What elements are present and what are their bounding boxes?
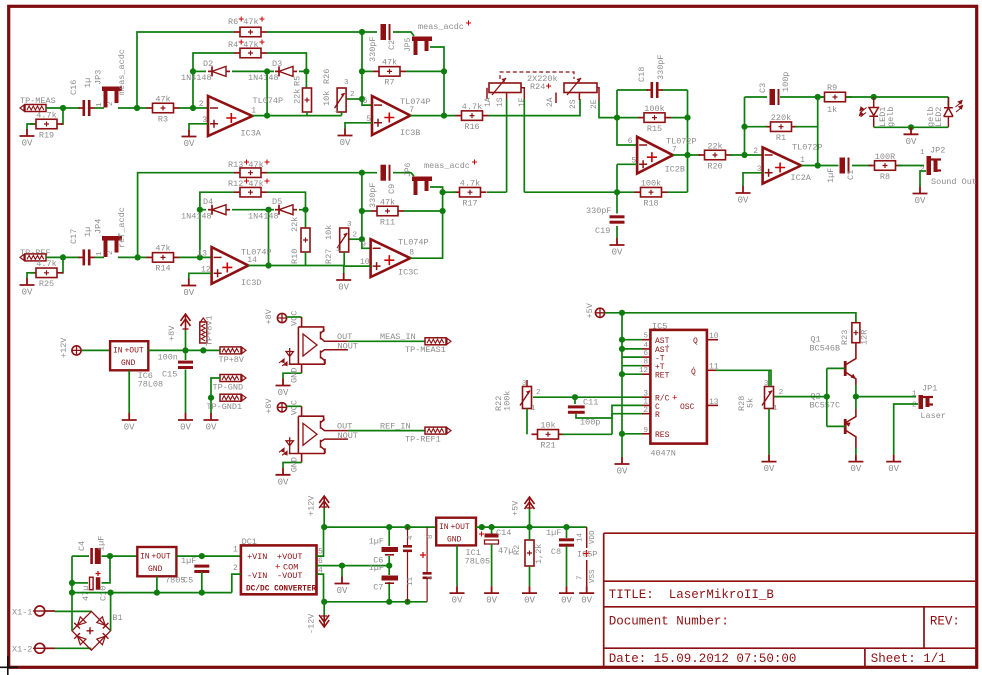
svg-text:C4: C4 (77, 541, 87, 551)
svg-text:2E: 2E (590, 99, 599, 109)
svg-text:2: 2 (536, 389, 541, 397)
svg-text:LED2: LED2 (934, 107, 944, 127)
capacitor C19 330pF (610, 215, 625, 223)
title block frame (604, 533, 977, 667)
svg-text:R9: R9 (827, 83, 837, 93)
label C7 (373, 583, 383, 593)
test pad jack TP-REF1 (425, 427, 451, 434)
wire IC2B out to R20 (673, 154, 701, 156)
junction R2 top (526, 524, 532, 530)
svg-text:+5V: +5V (585, 302, 595, 318)
svg-text:GND: GND (148, 565, 163, 574)
capacitor C4 1uF (90, 548, 101, 564)
label TP-GND (213, 383, 244, 393)
svg-text:330pF: 330pF (656, 54, 666, 80)
label 100n (158, 353, 178, 363)
junction top feedback node (359, 29, 365, 35)
label R28 (737, 396, 747, 411)
svg-text:IC3C: IC3C (398, 268, 418, 278)
diode D2 1N4148 (208, 66, 230, 76)
label 330pF C18 (656, 54, 666, 80)
label 100p C11 (580, 418, 600, 428)
label R24 (530, 82, 545, 92)
svg-text:IN: IN (113, 347, 123, 356)
wire R7 right to output riser (406, 70, 444, 72)
wire C3 row (745, 96, 818, 98)
pin2 R26 wiper (350, 91, 355, 99)
op-amp IC3D TL074P (197, 247, 271, 288)
capacitor C10 47u (90, 571, 101, 590)
capacitor C13 tantal (420, 527, 435, 602)
label 1N4148 D2 (181, 73, 212, 83)
wire IC5 pin 9 (622, 433, 642, 435)
pin3 label IC5 (643, 390, 648, 399)
svg-text:0V: 0V (764, 464, 775, 474)
wire X1-1 stub (45, 610, 55, 612)
svg-text:3: 3 (347, 221, 352, 229)
capacitor C17 1uF (79, 249, 95, 265)
optical sensor OK1 meas sensor body (279, 317, 348, 366)
svg-text:2: 2 (643, 406, 648, 415)
label R26 (322, 69, 332, 84)
svg-text:TP-GND1: TP-GND1 (206, 402, 242, 412)
origin cross R24 (546, 84, 551, 89)
wire IC5 left riser (621, 313, 623, 434)
svg-text:0V: 0V (888, 464, 899, 474)
net label +12V bottom (307, 495, 317, 516)
svg-text:+12V: +12V (59, 337, 69, 358)
junction rail C5 (199, 590, 205, 596)
svg-text:5k: 5k (746, 398, 756, 408)
label C8 (551, 547, 561, 557)
label C1 (846, 170, 856, 180)
wire LED bottom row (874, 126, 949, 128)
wire IC5 pin 6 (622, 356, 642, 358)
wire +12V rail (324, 526, 436, 528)
label 1uF C6 (369, 537, 384, 547)
wire R28 top (768, 370, 770, 386)
label 1uF C4 (97, 536, 107, 551)
svg-text:1N4148: 1N4148 (248, 73, 279, 83)
svg-text:C7: C7 (373, 583, 383, 593)
svg-text:Laser: Laser (920, 411, 946, 421)
label GND OK1 meas sensor (290, 368, 300, 383)
label 330pF C2 (368, 36, 378, 62)
svg-text:3: 3 (344, 79, 349, 87)
op-amp IC3C TL074P (360, 238, 429, 278)
wire R9 left (818, 96, 824, 98)
label 22k R10 (290, 217, 300, 232)
svg-text:R18: R18 (643, 198, 658, 208)
svg-text:0V: 0V (337, 586, 348, 596)
svg-text:220k: 220k (771, 113, 791, 123)
svg-text:10k: 10k (324, 225, 334, 240)
supply +5V arrow bottom (525, 497, 535, 509)
svg-text:0V: 0V (183, 288, 194, 298)
net label meas_acdc at JP5 (418, 22, 464, 32)
diode D5 1N4148 (275, 205, 297, 215)
wire C11 bottom path (576, 405, 642, 418)
svg-text:-VIN: -VIN (247, 571, 267, 581)
junction D4-D5 mid (265, 207, 271, 213)
svg-text:22k: 22k (293, 89, 303, 104)
wire emitter to JP1 (856, 396, 916, 398)
pin1 R28 (773, 405, 778, 413)
op-amp IC3B TL074P (363, 96, 431, 138)
svg-text:gelb: gelb (886, 107, 896, 127)
capacitor C3 100p (770, 89, 780, 105)
junction meas node riser1 (134, 105, 140, 111)
origin cross meas_acdc jp5 (466, 21, 471, 26)
label C2 (387, 40, 397, 50)
svg-text:C3: C3 (758, 83, 768, 93)
svg-text:1N4148: 1N4148 (181, 73, 212, 83)
svg-text:VDD: VDD (589, 530, 597, 544)
junction +8V arrow (182, 347, 188, 353)
svg-text:4.7k: 4.7k (462, 102, 482, 112)
test pad jack TP-MEAS1 (425, 338, 451, 345)
svg-text:4047N: 4047N (650, 449, 676, 459)
junction R11 output riser (440, 208, 446, 214)
svg-text:47k: 47k (380, 197, 395, 207)
junction IC2A pin2 node (741, 152, 747, 158)
IC5 pin stub 12 (642, 373, 650, 375)
wire R19 to ground (27, 124, 35, 129)
junction rail2 C6col (386, 599, 392, 605)
label R9 (827, 83, 837, 93)
pin3 R28 (764, 380, 769, 388)
optical sensor OK2 ref sensor body (279, 406, 348, 455)
svg-text:0V: 0V (22, 288, 33, 298)
svg-text:R11: R11 (380, 217, 395, 227)
ground 0V under IC5 (615, 457, 630, 477)
label C10 (99, 586, 109, 601)
svg-text:100k: 100k (503, 391, 513, 411)
net label -12V bottom (307, 613, 317, 634)
jumper JP3 (102, 87, 122, 108)
wire R11 right (404, 210, 443, 212)
svg-text:6: 6 (363, 97, 368, 106)
svg-text:1,2k: 1,2k (534, 544, 544, 564)
ground 0V under TP-GND (204, 413, 219, 433)
label R22 (494, 396, 504, 411)
ground 0V at C19 (610, 238, 625, 258)
capacitor C1 1uF (840, 158, 850, 174)
label OUT OK1 meas sensor (337, 332, 352, 342)
svg-text:+8V: +8V (264, 398, 274, 414)
junction C14 top (489, 524, 495, 530)
resistor R10 22k (301, 228, 310, 252)
svg-text:IC3D: IC3D (241, 278, 261, 288)
svg-text:4.7k: 4.7k (36, 110, 56, 120)
svg-text:GND: GND (121, 359, 136, 368)
wire R1 leads (745, 126, 818, 128)
supply +8V arrow (181, 314, 191, 330)
label Q1 (810, 335, 820, 345)
wire -VIN to gnd rail (232, 574, 241, 593)
wire R13 to C9 node (267, 172, 377, 174)
label TP-MEAS1 (405, 345, 446, 355)
label gelb LED1 (886, 107, 896, 127)
label 5k R28 (746, 398, 756, 408)
svg-text:2S: 2S (569, 99, 578, 109)
label BC546B (810, 344, 841, 354)
label B1 (112, 613, 122, 623)
svg-text:JP2: JP2 (930, 146, 945, 156)
bridge rectifier B1 (72, 611, 111, 650)
junction riser R7 (359, 68, 365, 74)
wire IC2B pin5 (617, 164, 637, 192)
junction C10 left (69, 580, 75, 586)
junction riser wiper (359, 96, 365, 102)
LED LED1 gelb (860, 97, 879, 127)
wire Q2 base (827, 425, 845, 427)
resistor R7 47k (373, 58, 406, 88)
wire R16 to pot 2S (489, 99, 581, 116)
svg-text:VCC: VCC (290, 400, 300, 415)
junction R17 node (440, 189, 446, 195)
svg-text:10k: 10k (540, 421, 555, 431)
svg-text:R14: R14 (155, 264, 170, 274)
wire pin2 riser (744, 97, 746, 155)
svg-text:2: 2 (753, 147, 758, 156)
svg-text:0V: 0V (906, 137, 917, 147)
label 22k R5 (293, 89, 303, 104)
svg-text:JP5: JP5 (404, 37, 413, 52)
test pad jack TP-GND1 (220, 394, 246, 401)
svg-text:BC546B: BC546B (810, 344, 841, 354)
wire IC1 out rail (476, 526, 587, 528)
svg-text:NOUT: NOUT (338, 342, 358, 352)
rev text (930, 615, 960, 629)
trimmer R22 100k (520, 387, 532, 409)
svg-text:1µF: 1µF (181, 556, 196, 566)
resistor R17 4.7k (454, 178, 487, 208)
label D5 (272, 197, 282, 207)
svg-text:100n: 100n (158, 353, 178, 363)
net label MEAS_IN (380, 332, 416, 342)
svg-text:+12V: +12V (307, 495, 317, 516)
label VCC OK2 ref sensor (290, 400, 300, 415)
svg-text:0V: 0V (738, 196, 749, 206)
wire pin11 to R28 (716, 370, 771, 385)
wire R8 to JP2 (898, 165, 924, 167)
wire IC3A pin3 to ground (189, 124, 208, 130)
junction rail2 cap2col (404, 599, 410, 605)
capacitor C6 1uF (382, 547, 399, 555)
ground 0V under C8 (559, 586, 574, 606)
svg-text:2: 2 (912, 402, 917, 410)
svg-text:Sound Out: Sound Out (931, 177, 977, 187)
op-amp IC3A TL074P (199, 96, 283, 139)
label LED2 (934, 107, 944, 127)
transistor Q2 BC557C (845, 409, 856, 448)
pin1 label IC5 (643, 398, 648, 407)
svg-text:1µ: 1µ (83, 78, 93, 88)
svg-text:2: 2 (350, 91, 355, 99)
ground 0V under IC5P (579, 586, 594, 606)
supply +5V circle (595, 308, 604, 317)
pin1 R22 (531, 405, 536, 413)
wire IC2A out (801, 165, 838, 167)
svg-text:JP6: JP6 (404, 162, 413, 177)
svg-text:5: 5 (643, 333, 648, 341)
origin cross R12 (244, 179, 270, 184)
svg-text:D2: D2 (203, 59, 213, 69)
svg-text:1N4148: 1N4148 (248, 212, 279, 222)
wire +5V top rail to R23 (622, 313, 856, 322)
wire R15 leads (617, 117, 688, 119)
capacitor C12 tantal (403, 527, 415, 602)
potentiometer R24 2X220k section 2 (556, 78, 599, 103)
pin 2E (590, 99, 599, 109)
junction output riser (264, 113, 270, 119)
svg-text:IC5: IC5 (652, 322, 667, 332)
wire R26 bottom (341, 112, 343, 116)
label Q2 (810, 392, 820, 402)
svg-text:R8: R8 (880, 172, 890, 182)
pin 1S (496, 97, 505, 107)
label C9 (387, 184, 397, 194)
wire Q2 collector gnd (855, 448, 857, 455)
svg-text:R2: R2 (512, 545, 522, 555)
DC1 pin text (246, 552, 317, 594)
svg-text:X1-2: X1-2 (12, 645, 32, 655)
pin1 JP2 (920, 149, 925, 157)
svg-text:C14: C14 (496, 528, 511, 538)
label 1u C17 (83, 227, 93, 237)
label C6 (373, 556, 383, 566)
svg-text:TP+8V1: TP+8V1 (205, 315, 215, 346)
label Laser (920, 411, 946, 421)
wire TP-GND link (211, 378, 220, 413)
pin number 12 IC5 (639, 367, 648, 375)
svg-text:47k: 47k (155, 94, 170, 104)
resistor R13 47k (234, 168, 267, 178)
capacitor C8 1uF (559, 538, 574, 546)
ground 0V LEDs (904, 127, 919, 147)
ground 0V under JP1 (886, 455, 901, 475)
wire R10 bottom (305, 252, 307, 266)
trimmer R27 10k (337, 228, 349, 252)
wire C18 row (617, 89, 688, 91)
wire TP-MEAS jack to node (46, 107, 80, 109)
label JP4 (94, 219, 104, 234)
net label REF_IN (380, 421, 411, 431)
label 10k R26 (322, 91, 332, 106)
pin2 JP2 (920, 166, 925, 174)
svg-text:14: 14 (247, 256, 257, 265)
R22 top stub (526, 380, 528, 387)
svg-text:R: R (655, 411, 660, 420)
wire gnd OK1 meas sensor (283, 373, 302, 378)
svg-text:12R: 12R (860, 330, 870, 345)
svg-text:IC3B: IC3B (400, 128, 420, 138)
svg-text:1: 1 (336, 246, 341, 254)
junction +12V rail left (321, 524, 327, 530)
wire R21 right (562, 433, 612, 435)
pin 2A (546, 97, 555, 107)
wire pin3 row (533, 396, 642, 398)
label BC557C (810, 401, 841, 411)
svg-text:-12V: -12V (307, 613, 317, 634)
supply -12V arrow (319, 615, 329, 627)
junction R4 riser (190, 105, 196, 111)
svg-text:2A: 2A (546, 97, 555, 107)
svg-text:TL072P: TL072P (666, 137, 697, 147)
wire pot1 E riser (523, 99, 525, 192)
IC5 pin stub 9 (642, 433, 650, 435)
wire R19 to junction (61, 108, 63, 124)
svg-text:0V: 0V (486, 596, 497, 606)
wire C11 top (574, 397, 576, 404)
label TP+8V (219, 355, 245, 365)
resistor R19 4.7k (30, 110, 63, 140)
svg-text:+: + (672, 394, 677, 404)
svg-text:22k: 22k (290, 217, 300, 232)
ground 0V at JP2 (913, 187, 928, 207)
IC5 pin1 stub (642, 404, 650, 406)
pin number 9 IC5 (643, 427, 648, 435)
junction riser R11 (359, 208, 365, 214)
wire C14 column (491, 527, 493, 586)
junction top feedback node ch2 (359, 170, 365, 176)
wire C9 to JP6 (393, 173, 414, 176)
svg-text:IC2B: IC2B (665, 165, 685, 175)
svg-text:9: 9 (361, 240, 366, 249)
wire C16 to JP3 (95, 107, 105, 109)
svg-text:R26: R26 (322, 69, 332, 84)
svg-text:100k: 100k (641, 178, 661, 188)
svg-text:1A: 1A (484, 97, 493, 107)
svg-text:+VOUT: +VOUT (277, 552, 303, 562)
label D4 (203, 197, 213, 207)
svg-text:AST: AST (655, 337, 670, 346)
resistor R6 47k (234, 27, 267, 37)
svg-text:GND: GND (447, 536, 462, 545)
svg-text:+OUT: +OUT (152, 552, 171, 561)
net label +8V OK2 ref sensor (264, 398, 274, 414)
svg-text:C2: C2 (387, 40, 397, 50)
svg-text:D3: D3 (272, 59, 282, 69)
origin cross R4 (239, 40, 265, 45)
wire X1-2 to bridge (55, 647, 91, 649)
svg-text:IC2A: IC2A (791, 173, 812, 183)
resistor R15 100k (638, 104, 671, 134)
svg-text:1µ: 1µ (83, 227, 93, 237)
pin 1 JP3 (96, 102, 104, 107)
svg-text:0V: 0V (581, 596, 592, 606)
connector pin X1-1 (33, 606, 45, 616)
wire TP-REF jack to node (46, 256, 80, 258)
pin 1A (484, 97, 493, 107)
junction D5 right (302, 207, 308, 213)
sensor gnd stub OK2 ref sensor (301, 454, 303, 463)
label C3 (758, 83, 768, 93)
svg-text:1µF: 1µF (97, 536, 107, 551)
junction feedback R15 (684, 115, 690, 121)
wire riser to R6 feedback (137, 32, 234, 108)
svg-text:1µF: 1µF (369, 537, 384, 547)
origin cross R13 (244, 160, 270, 165)
label 7805 (165, 576, 185, 586)
wire mid-diode riser to opamp out (266, 71, 268, 115)
wire R17 left (443, 191, 456, 193)
ground 0V under R2 (522, 586, 537, 606)
svg-text:C8: C8 (551, 547, 561, 557)
svg-text:JP1: JP1 (922, 384, 937, 394)
svg-text:ref_acdc: ref_acdc (117, 207, 127, 248)
